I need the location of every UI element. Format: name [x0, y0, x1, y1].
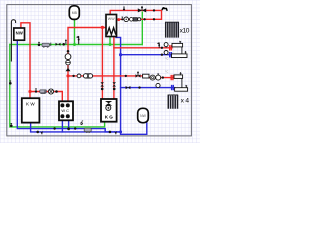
- svg-text:NW: NW: [140, 114, 146, 118]
- svg-text:05.30: 05.30: [169, 93, 176, 97]
- svg-text:x10: x10: [180, 27, 190, 34]
- svg-text:MB: MB: [72, 11, 78, 15]
- svg-text:K G: K G: [105, 114, 114, 119]
- svg-text:K W: K W: [26, 102, 35, 107]
- svg-text:WW: WW: [108, 17, 115, 21]
- svg-text:x 4: x 4: [181, 98, 190, 105]
- svg-text:W C: W C: [61, 108, 69, 113]
- svg-text:NW: NW: [16, 30, 24, 35]
